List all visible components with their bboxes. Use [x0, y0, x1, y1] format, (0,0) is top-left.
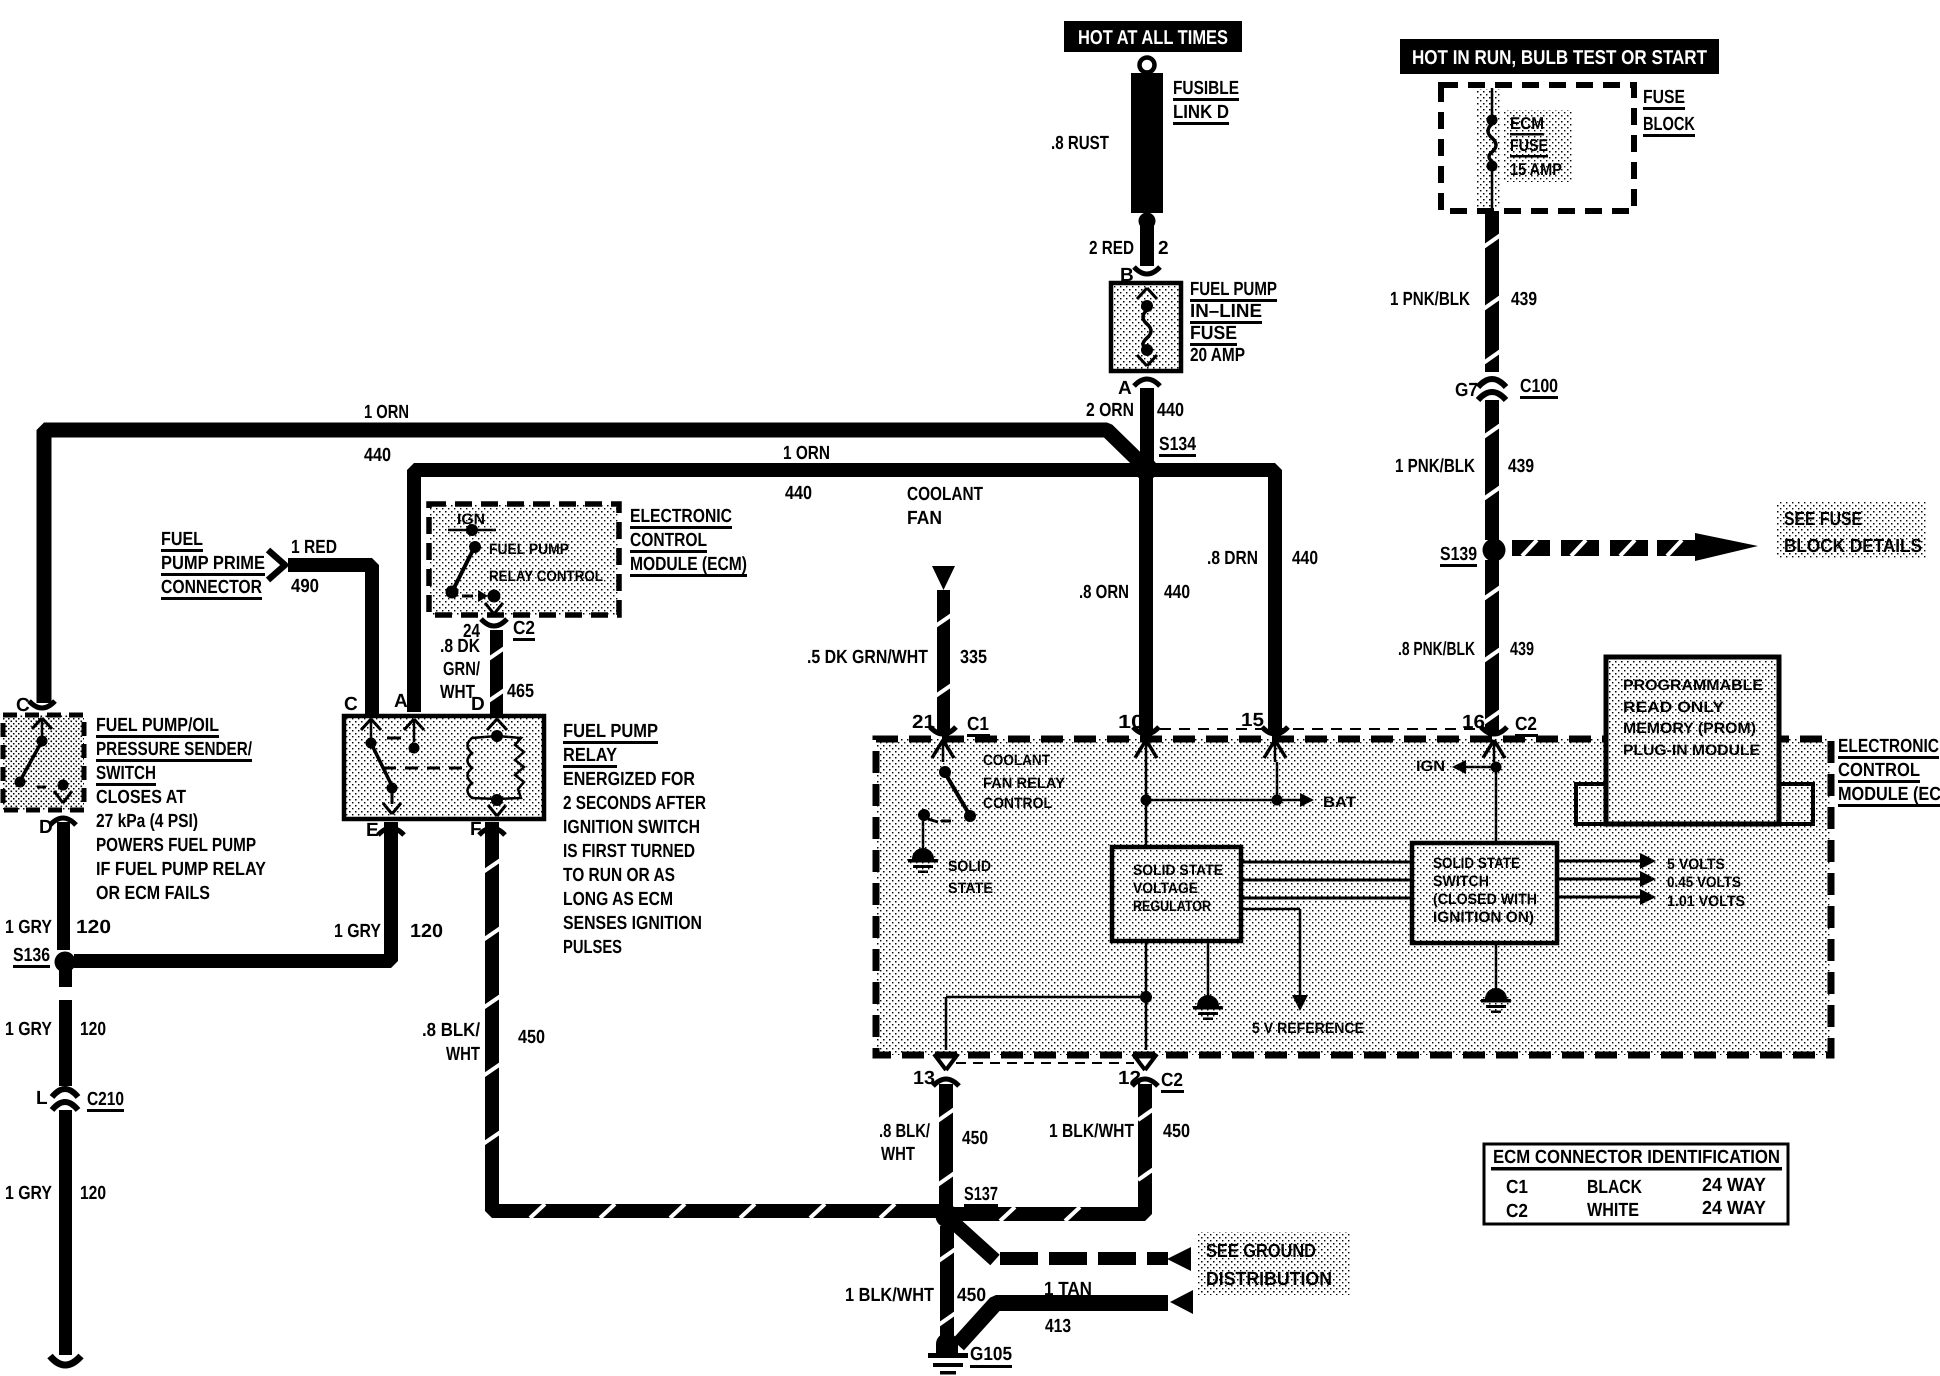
svg-text:SEE GROUND: SEE GROUND [1206, 1241, 1316, 1262]
svg-text:MODULE (EC: MODULE (EC [1838, 784, 1940, 805]
svg-text:1 GRY: 1 GRY [5, 1183, 52, 1204]
svg-text:.8 DRN: .8 DRN [1207, 548, 1258, 569]
connector C210 pin L [52, 1089, 78, 1110]
svg-text:1 GRY: 1 GRY [5, 917, 52, 938]
fuse block dashed box [1441, 85, 1634, 211]
svg-text:.5 DK GRN/WHT: .5 DK GRN/WHT [807, 647, 928, 668]
svg-text:1 PNK/BLK: 1 PNK/BLK [1390, 289, 1470, 310]
fuel pump prime connector terminal [268, 550, 285, 580]
wire .8 BLK/WHT 450 (pin 13 to S137, hatched) [936, 1084, 956, 1208]
coolant fan feed triangle [932, 566, 955, 590]
svg-text:FUEL: FUEL [161, 529, 203, 550]
svg-text:OR ECM FAILS: OR ECM FAILS [96, 883, 210, 904]
svg-text:SENSES IGNITION: SENSES IGNITION [563, 913, 702, 934]
svg-text:2 ORN: 2 ORN [1086, 400, 1134, 421]
svg-text:450: 450 [957, 1285, 986, 1306]
wires between regulator and switch [1241, 862, 1412, 898]
electronic control module dashed box [876, 739, 1831, 1055]
svg-text:PUMP PRIME: PUMP PRIME [161, 553, 265, 574]
svg-text:SOLID STATE: SOLID STATE [1133, 862, 1223, 879]
pin C connector (sender) [29, 701, 55, 708]
svg-text:440: 440 [364, 445, 391, 466]
svg-text:5 VOLTS: 5 VOLTS [1667, 856, 1725, 873]
volts output arrows [1557, 853, 1656, 905]
svg-text:SEE FUSE: SEE FUSE [1784, 509, 1862, 530]
pin 15 internal stem [1264, 740, 1286, 795]
wire 1 ORN 440 (lower, from relay pin A to S134) [414, 470, 1146, 712]
relay internal dashed link [383, 767, 466, 770]
svg-text:.8 PNK/BLK: .8 PNK/BLK [1398, 639, 1475, 660]
svg-text:ECM: ECM [1510, 114, 1544, 133]
svg-text:C2: C2 [513, 618, 535, 639]
svg-text:24 WAY: 24 WAY [1702, 1175, 1766, 1196]
ground G105 [928, 1333, 968, 1375]
svg-text:CONTROL: CONTROL [630, 530, 707, 551]
pin B connector [1134, 267, 1160, 274]
svg-text:PROGRAMMABLE: PROGRAMMABLE [1623, 677, 1763, 694]
svg-text:CONTROL: CONTROL [1838, 760, 1920, 781]
svg-text:CONNECTOR: CONNECTOR [161, 577, 262, 598]
svg-text:2 RED: 2 RED [1089, 238, 1134, 259]
svg-text:VOLTAGE: VOLTAGE [1133, 880, 1198, 897]
svg-text:1 GRY: 1 GRY [5, 1019, 52, 1040]
dashed hatched wire to fuse block details [1512, 533, 1758, 561]
svg-text:BLACK: BLACK [1587, 1177, 1642, 1198]
svg-text:WHT: WHT [446, 1044, 480, 1065]
wire 1 BLK/WHT 450 (S137 to G105, hatched) [937, 1226, 957, 1342]
svg-text:1 GRY: 1 GRY [334, 921, 381, 942]
svg-text:POWERS FUEL PUMP: POWERS FUEL PUMP [96, 835, 256, 856]
svg-text:FUEL PUMP: FUEL PUMP [489, 541, 569, 558]
svg-text:439: 439 [1510, 639, 1534, 660]
svg-text:CLOSES AT: CLOSES AT [96, 787, 186, 808]
label ELECTRONIC CONTROL MODULE (EC [1838, 736, 1940, 807]
svg-text:SOLID: SOLID [948, 858, 991, 875]
svg-text:C1: C1 [967, 714, 989, 735]
svg-text:TO RUN OR AS: TO RUN OR AS [563, 865, 675, 886]
svg-text:PLUG-IN MODULE: PLUG-IN MODULE [1623, 742, 1760, 759]
svg-text:STATE: STATE [948, 880, 993, 897]
svg-text:120: 120 [80, 1019, 106, 1040]
wire .8 PNK/BLK 439 (S139 to ECM pin 16, hatched) [1482, 560, 1502, 732]
pin 21 connector [930, 727, 956, 734]
wire 2 ORN 440 [1140, 388, 1154, 464]
switch ground [1481, 943, 1511, 1013]
svg-text:.8 DK: .8 DK [440, 636, 480, 657]
svg-text:IF FUEL PUMP RELAY: IF FUEL PUMP RELAY [96, 859, 266, 880]
svg-text:12: 12 [1118, 1068, 1141, 1089]
wire from S134 right to ECM pin 15 (.8 DRN 440) [1150, 470, 1275, 732]
svg-text:G105: G105 [970, 1344, 1012, 1365]
svg-text:G7: G7 [1455, 380, 1478, 401]
svg-text:WHITE: WHITE [1587, 1200, 1639, 1221]
svg-text:FUEL PUMP: FUEL PUMP [563, 721, 658, 742]
svg-text:ELECTRONIC: ELECTRONIC [1838, 736, 1939, 757]
svg-text:REGULATOR: REGULATOR [1133, 898, 1211, 915]
wire 1 GRY 120 (below C210) [59, 1110, 72, 1355]
sender switch internals [15, 718, 73, 803]
relay pin D arrow [487, 719, 507, 730]
svg-text:13: 13 [913, 1068, 935, 1089]
svg-text:IS FIRST TURNED: IS FIRST TURNED [563, 841, 695, 862]
svg-text:5 V REFERENCE: 5 V REFERENCE [1252, 1020, 1364, 1037]
pin 13 exit arrow [933, 1054, 959, 1086]
svg-text:21: 21 [912, 712, 935, 733]
svg-text:439: 439 [1508, 456, 1534, 477]
fusible link bottom dot [1139, 213, 1156, 230]
fusible link ring terminal [1140, 58, 1155, 73]
svg-text:MEMORY (PROM): MEMORY (PROM) [1623, 720, 1756, 737]
svg-text:450: 450 [1163, 1121, 1190, 1142]
svg-text:(CLOSED WITH: (CLOSED WITH [1433, 891, 1537, 908]
connector C2 pin 24 [481, 619, 507, 626]
splice S139 [1440, 539, 1506, 568]
svg-text:0.45 VOLTS: 0.45 VOLTS [1667, 874, 1741, 891]
svg-text:HOT IN RUN, BULB TEST OR START: HOT IN RUN, BULB TEST OR START [1412, 47, 1707, 69]
ground (coolant fan solid state) [908, 848, 938, 873]
label box HOT IN RUN, BULB TEST OR START [1400, 39, 1719, 74]
svg-text:HOT AT ALL TIMES: HOT AT ALL TIMES [1078, 27, 1228, 49]
svg-text:S139: S139 [1440, 544, 1477, 565]
svg-text:SWITCH: SWITCH [1433, 873, 1489, 890]
ECM fuse element [1487, 88, 1498, 211]
label FUEL PUMP IN-LINE FUSE 20 AMP [1190, 279, 1277, 366]
svg-text:GRN/: GRN/ [443, 659, 481, 680]
solid state voltage regulator box [1112, 847, 1241, 941]
svg-text:ELECTRONIC: ELECTRONIC [630, 506, 732, 527]
regulator bottom node [946, 941, 1152, 1050]
relay coil [468, 730, 525, 816]
label FUSIBLE LINK D [1173, 78, 1239, 125]
fuel pump relay box [344, 716, 544, 819]
svg-text:465: 465 [507, 681, 534, 702]
svg-text:E: E [366, 820, 379, 841]
svg-text:ECM CONNECTOR IDENTIFICATION: ECM CONNECTOR IDENTIFICATION [1493, 1147, 1780, 1168]
svg-text:C2: C2 [1161, 1070, 1183, 1091]
svg-text:FUEL PUMP: FUEL PUMP [1190, 279, 1277, 300]
svg-text:PULSES: PULSES [563, 937, 622, 958]
relay pin E connector [378, 828, 404, 835]
svg-text:BLOCK DETAILS: BLOCK DETAILS [1784, 536, 1922, 557]
svg-text:490: 490 [291, 576, 319, 597]
label ECM FUSE 15 AMP [1510, 114, 1562, 179]
svg-text:2 SECONDS AFTER: 2 SECONDS AFTER [563, 793, 706, 814]
label SEE FUSE BLOCK DETAILS [1776, 502, 1926, 558]
svg-text:CONTROL: CONTROL [983, 795, 1052, 812]
svg-text:440: 440 [1164, 582, 1190, 603]
svg-text:1 PNK/BLK: 1 PNK/BLK [1395, 456, 1475, 477]
wire .8 BLK/WHT 450 (relay pin F to S137, hatched) [483, 822, 940, 1218]
PROM plug-in module box [1576, 657, 1813, 824]
svg-text:20 AMP: 20 AMP [1190, 345, 1245, 366]
svg-text:FAN: FAN [907, 508, 942, 529]
svg-text:120: 120 [76, 917, 111, 938]
svg-text:IGNITION ON): IGNITION ON) [1433, 909, 1534, 926]
label ELECTRONIC CONTROL MODULE (ECM) [630, 506, 747, 577]
svg-text:.8 BLK/: .8 BLK/ [879, 1121, 931, 1142]
svg-text:F: F [470, 819, 482, 840]
svg-text:450: 450 [962, 1128, 988, 1149]
wire 2 RED [1140, 222, 1154, 266]
svg-text:440: 440 [785, 483, 812, 504]
wire .8 DK GRN/WHT 465 (hatched) [487, 630, 506, 714]
wire below S136 [59, 970, 72, 987]
svg-text:IN–LINE: IN–LINE [1190, 301, 1262, 322]
svg-text:A: A [394, 691, 408, 712]
pin 10 internal node to BAT [1135, 740, 1314, 807]
svg-text:FAN RELAY: FAN RELAY [983, 775, 1065, 792]
svg-text:C1: C1 [1506, 1177, 1528, 1198]
svg-text:C2: C2 [1506, 1201, 1528, 1222]
label SEE GROUND DISTRIBUTION [1198, 1232, 1350, 1295]
wire 1 BLK/WHT 450 (S137 to pin 12, hatched) [954, 1084, 1158, 1221]
svg-text:.8 ORN: .8 ORN [1079, 582, 1129, 603]
relay pin A arrow [404, 719, 424, 730]
5 V reference line and arrow [1241, 909, 1308, 1011]
svg-text:D: D [39, 817, 53, 838]
relay switch [366, 721, 420, 814]
fusible link body [1131, 73, 1163, 213]
svg-text:IGN: IGN [1416, 758, 1445, 775]
svg-text:FUSE: FUSE [1643, 87, 1685, 108]
wire 1 GRY 120 (S136 to relay pin E) [74, 822, 391, 961]
splice S134 [1135, 434, 1197, 481]
pin D connector (sender) [50, 818, 76, 825]
label FUEL PUMP RELAY description [563, 721, 706, 958]
svg-text:DISTRIBUTION: DISTRIBUTION [1206, 1269, 1332, 1290]
relay pin F connector [479, 828, 505, 835]
ECM box (fuel pump relay control) [429, 504, 619, 615]
svg-text:1 BLK/WHT: 1 BLK/WHT [1049, 1121, 1134, 1142]
fuel pump/oil pressure sender/switch box [3, 715, 84, 810]
svg-text:1 RED: 1 RED [291, 537, 337, 558]
svg-text:440: 440 [1292, 548, 1318, 569]
relay pin C arrow [361, 719, 381, 730]
wire from S134 down to ECM pin 10 (.8 ORN 440) [1139, 470, 1153, 732]
svg-text:FUSIBLE: FUSIBLE [1173, 78, 1239, 99]
label FUSE BLOCK [1643, 87, 1695, 137]
svg-text:1 BLK/WHT: 1 BLK/WHT [845, 1285, 934, 1306]
pin A connector [1134, 379, 1160, 386]
svg-text:COOLANT: COOLANT [907, 484, 983, 505]
svg-text:1 TAN: 1 TAN [1044, 1279, 1092, 1300]
splice S137 [936, 1184, 999, 1228]
svg-text:RELAY: RELAY [563, 745, 617, 766]
svg-text:SOLID STATE: SOLID STATE [1433, 855, 1520, 872]
svg-text:ENERGIZED FOR: ENERGIZED FOR [563, 769, 695, 790]
pin 16 internal node to IGN [1452, 740, 1505, 843]
label FUEL PUMP/OIL PRESSURE SENDER/SWITCH text block [96, 715, 266, 904]
svg-text:1 ORN: 1 ORN [783, 443, 830, 464]
svg-text:C100: C100 [1520, 376, 1558, 397]
thin dashed connector line below ECM [956, 1062, 1134, 1064]
connector C100 pin G7 [1478, 379, 1506, 400]
thin dashed connector line above ECM top border (pins 10-16) [1160, 728, 1480, 730]
svg-text:FUSE: FUSE [1510, 136, 1548, 155]
pin 16 connector [1481, 727, 1507, 734]
svg-text:1.01 VOLTS: 1.01 VOLTS [1667, 893, 1745, 910]
svg-text:S136: S136 [13, 945, 50, 966]
svg-text:120: 120 [80, 1183, 106, 1204]
line pin10 to voltage regulator [1145, 805, 1148, 847]
svg-text:MODULE (ECM): MODULE (ECM) [630, 554, 747, 575]
svg-text:15: 15 [1241, 710, 1264, 731]
svg-text:A: A [1118, 378, 1132, 399]
svg-text:FUEL PUMP/OIL: FUEL PUMP/OIL [96, 715, 219, 736]
svg-text:440: 440 [1157, 400, 1184, 421]
pin 15 connector [1262, 727, 1288, 734]
svg-text:2: 2 [1158, 238, 1169, 259]
svg-text:FUSE: FUSE [1190, 323, 1237, 344]
svg-text:C210: C210 [87, 1089, 124, 1110]
wire 1 GRY 120 (sender D to S136) [57, 822, 70, 950]
regulator ground [1193, 941, 1223, 1020]
svg-text:COOLANT: COOLANT [983, 752, 1050, 769]
svg-text:.8 RUST: .8 RUST [1051, 133, 1109, 154]
solid state switch box [1412, 843, 1557, 943]
svg-text:BAT: BAT [1323, 794, 1356, 811]
coolant fan relay control switch [918, 740, 976, 855]
svg-text:335: 335 [960, 647, 987, 668]
svg-text:PRESSURE SENDER/: PRESSURE SENDER/ [96, 739, 253, 760]
dashed wire to ground distribution [953, 1222, 1191, 1271]
svg-text:S134: S134 [1159, 434, 1196, 455]
svg-text:S137: S137 [964, 1184, 998, 1205]
svg-text:LINK D: LINK D [1173, 102, 1229, 123]
wire 1 ORN 440 (upper, from left edge to S134) [44, 430, 1146, 703]
label FUEL PUMP PRIME CONNECTOR [161, 529, 265, 600]
svg-text:413: 413 [1045, 1316, 1071, 1337]
wire 1 PNK/BLK 439 (fuse block to C100, hatched) [1482, 211, 1502, 372]
svg-text:24 WAY: 24 WAY [1702, 1198, 1766, 1219]
svg-text:27 kPa (4 PSI): 27 kPa (4 PSI) [96, 811, 198, 832]
svg-text:1 ORN: 1 ORN [364, 402, 409, 423]
svg-text:LONG AS ECM: LONG AS ECM [563, 889, 673, 910]
wire .5 DK GRN/WHT 335 (hatched) [934, 590, 953, 732]
wire 1 RED 490 [288, 565, 372, 714]
fuel pump in-line fuse box [1111, 283, 1181, 371]
svg-text:10: 10 [1118, 712, 1144, 733]
pin 10 connector [1133, 727, 1159, 734]
svg-text:L: L [36, 1088, 48, 1109]
svg-text:WHT: WHT [881, 1144, 915, 1165]
svg-text:C: C [344, 694, 358, 715]
splice S136 [13, 945, 76, 973]
svg-text:IGNITION SWITCH: IGNITION SWITCH [563, 817, 700, 838]
label box HOT AT ALL TIMES [1064, 21, 1242, 52]
relay control switch [446, 524, 504, 614]
svg-text:439: 439 [1511, 289, 1537, 310]
svg-text:C2: C2 [1515, 714, 1537, 735]
svg-text:15 AMP: 15 AMP [1510, 160, 1562, 179]
svg-text:READ ONLY: READ ONLY [1623, 699, 1724, 716]
svg-text:BLOCK: BLOCK [1643, 114, 1695, 135]
wire 1 TAN 413 [958, 1290, 1193, 1345]
pin 12 exit arrow [1132, 1054, 1158, 1086]
svg-text:450: 450 [518, 1027, 545, 1048]
bottom connector of 1 GRY wire [50, 1356, 81, 1365]
svg-text:D: D [471, 694, 485, 715]
wire 1 PNK/BLK 439 (C100 to S139, hatched) [1482, 400, 1502, 540]
svg-text:RELAY CONTROL: RELAY CONTROL [489, 568, 603, 585]
svg-text:.8 BLK/: .8 BLK/ [422, 1020, 481, 1041]
svg-text:120: 120 [410, 921, 443, 942]
svg-text:SWITCH: SWITCH [96, 763, 156, 784]
